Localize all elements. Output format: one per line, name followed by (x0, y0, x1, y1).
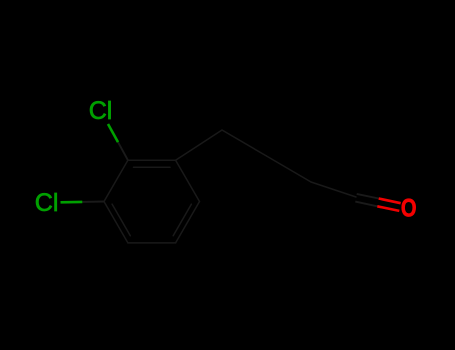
chlorine substituent bond C4-Cl (green half near label) (61, 201, 83, 204)
chain bonds (176, 130, 356, 197)
bond C2-C3 (ring top edge UR to UL) (128, 159, 176, 161)
bond C8-C9 (267, 156, 312, 182)
chlorine substituent bond C3-Cl (gray half near ring) (118, 142, 128, 160)
carbonyl C10=O double bond, upper line gray half (357, 194, 379, 199)
svg-text:Cl: Cl (35, 189, 59, 217)
bond C5-C6 (ring bottom edge LL to LR) (128, 242, 176, 244)
bond C7-C8 (222, 130, 267, 156)
svg-text:O: O (401, 194, 417, 221)
chlorine substituent bond C4-Cl (gray half near ring) (82, 201, 104, 203)
aromatic inner line C2-C3 (134, 166, 171, 168)
carbonyl C10=O double bond, upper line red half (379, 199, 401, 204)
carbonyl C10=O double bond, lower line gray half (355, 202, 377, 207)
aromatic inner line C6-C1 (173, 204, 191, 236)
bond C3-C4 (ring edge UL to Left) (104, 160, 128, 201)
bond C6-C1 (ring edge LR to Right) (176, 202, 200, 243)
benzene ring (104, 160, 200, 243)
carbonyl C10=O double bond, lower line red half (377, 206, 399, 211)
bond C2-C7 (176, 130, 222, 160)
bond C9-C10 (311, 182, 356, 197)
chlorine substituent bond C3-Cl (green half near label) (108, 124, 118, 142)
bond C4-C5 (ring edge Left to LL) (104, 202, 128, 243)
bond C1-C2 (ring edge UR to Right) (176, 160, 200, 201)
aromatic inner line C4-C5 (112, 204, 130, 236)
svg-text:Cl: Cl (89, 97, 113, 125)
